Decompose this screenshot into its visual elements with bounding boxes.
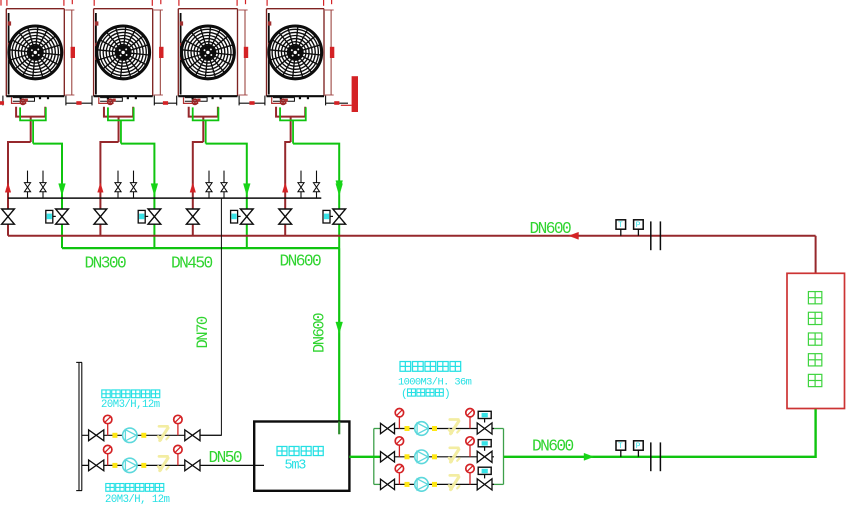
circ pump row 1 flex joint 1 — [405, 426, 410, 431]
equipment-to-be-cooled box — [787, 273, 845, 408]
small drain valve at x=209.0 — [206, 171, 212, 199]
red tick to label bar — [341, 104, 352, 106]
svg-text:20M3/H,12m: 20M3/H,12m — [101, 399, 160, 411]
internal make-up pump row discharge valve — [185, 460, 200, 471]
tower CT1 base — [12, 96, 50, 104]
dimension line tower CT1 — [65, 10, 75, 95]
circ pump row 2 flex joint 1 — [405, 454, 410, 459]
cooling tower CT1 — [6, 9, 64, 97]
internal make-up pump row check valve — [158, 456, 168, 470]
green supply pipe manifold tower CT3 — [193, 107, 247, 248]
label internal make-up pump (CJK) — [106, 484, 164, 492]
fan of tower CT3 — [181, 25, 235, 79]
red main flow arrow left — [569, 232, 579, 239]
supply wall (double line) — [76, 362, 82, 490]
external make-up pump row suction gauge — [104, 415, 112, 435]
svg-text:): ) — [444, 389, 451, 401]
circ pump row 2 discharge gauge — [466, 437, 474, 457]
expansion tank box — [254, 422, 349, 491]
external make-up pump row flex joint 2 — [141, 433, 146, 438]
circ pump row 2 suction gauge — [395, 437, 403, 457]
green flow arrow down riser CT2 — [151, 184, 158, 196]
pressure sensor on red main — [634, 220, 644, 236]
dimension line tower CT3 — [239, 10, 249, 95]
small drain valve at x=133.5 — [130, 171, 136, 199]
circ pump row 3 flex joint 1 — [405, 482, 410, 487]
green arrow down on DN600 vertical — [336, 181, 343, 192]
circ pump row 1 check valve — [449, 420, 459, 434]
green flow arrow down riser CT4 — [336, 184, 343, 196]
small drain valve at x=27.5 — [24, 171, 30, 199]
ground datum marks between towers — [0, 96, 348, 106]
external make-up pump row check valve — [158, 426, 168, 440]
internal make-up pump row suction valve — [89, 460, 104, 471]
valve actuator box CT3 — [231, 210, 241, 223]
circ pump row 2 check valve — [449, 448, 459, 462]
svg-text:T: T — [618, 221, 623, 230]
butterfly valve on red riser CT2 — [94, 209, 107, 224]
label circ pump group (CJK) — [400, 362, 461, 372]
top edge ticks tower CT2 — [94, 0, 161, 6]
circ pump row 2 actuator — [478, 440, 491, 451]
external make-up pump row discharge valve — [185, 430, 200, 441]
tower CT4 base — [272, 96, 309, 104]
internal make-up pump row suction gauge — [104, 445, 112, 465]
circ pump row 3 suction valve — [381, 479, 395, 489]
tank outlet pipe to pump row2 — [349, 456, 381, 458]
fan of tower CT4 — [268, 25, 322, 79]
fan of tower CT2 — [96, 25, 150, 79]
green supply pipe manifold tower CT4 — [280, 107, 339, 248]
butterfly valve on red riser CT1 — [2, 209, 15, 224]
internal make-up pump row pump — [123, 458, 137, 472]
circ pump row 3 flex joint 2 — [432, 482, 437, 487]
circ pump row 3 discharge valve — [477, 479, 492, 490]
label DN600 vertical — [311, 313, 329, 353]
drain header line — [8, 197, 321, 199]
external make-up pump row discharge gauge — [174, 415, 182, 435]
circ pump row 2 discharge valve — [477, 451, 492, 462]
circ pump group right manifold — [503, 429, 505, 485]
cooling tower CT4 — [267, 9, 325, 97]
small drain valve at x=118.0 — [115, 171, 121, 199]
valve actuator box CT2 — [138, 210, 148, 223]
circ pump row 2 suction valve — [381, 452, 395, 462]
circ pump row 3 suction gauge — [395, 464, 403, 484]
red vertical label bar (cooling tower note) — [352, 76, 358, 112]
red return pipe manifold tower CT3 — [189, 107, 218, 236]
tank label (CJK) — [277, 446, 323, 455]
svg-text:DN600: DN600 — [530, 220, 571, 238]
cooling tower CT3 — [178, 9, 237, 97]
DN70 make-up water pipe — [192, 198, 221, 435]
circ pump row 2 pipe — [380, 456, 494, 458]
butterfly valve on red riser CT3 — [186, 209, 199, 224]
svg-text:5m3: 5m3 — [285, 459, 307, 474]
internal make-up pump row discharge gauge — [174, 445, 182, 465]
manifold stubs rows — [374, 429, 504, 485]
circ pump row 3 pipe — [380, 483, 494, 485]
small drain valve at x=301.0 — [298, 171, 304, 199]
svg-text:(: ( — [401, 389, 408, 401]
top edge ticks tower CT1 — [7, 0, 72, 6]
circ pump row 1 pipe — [380, 428, 494, 430]
svg-text:DN300: DN300 — [85, 255, 126, 273]
butterfly valve on green riser CT2 — [148, 209, 161, 224]
cooling tower CT2 — [94, 9, 153, 97]
pipe union on red main — [651, 221, 661, 250]
valve actuator box CT4 — [323, 210, 333, 223]
DN600 pipe stub into tank — [338, 422, 340, 435]
circ pump row 3 actuator — [478, 467, 491, 478]
red condenser return main DN600 — [8, 235, 816, 237]
label external make-up pump (CJK) — [102, 390, 160, 398]
svg-text:T: T — [618, 442, 623, 451]
svg-text:1000M3/H. 36m: 1000M3/H. 36m — [398, 377, 472, 389]
external make-up pump row pump — [123, 428, 137, 442]
svg-text:DN600: DN600 — [280, 253, 321, 271]
small drain valve at x=43.0 — [40, 171, 46, 199]
red return pipe manifold tower CT1 — [8, 107, 45, 236]
label (2 duty 1 standby) (CJK) — [401, 389, 451, 401]
red flow arrow up riser CT2 — [98, 183, 104, 192]
green supply main to equipment — [504, 409, 816, 457]
circ pump row 2 pump — [415, 450, 429, 464]
green flow arrow down riser CT3 — [243, 184, 250, 196]
internal make-up pump row pipe — [82, 464, 264, 466]
equipment box vertical label (CJK) — [808, 292, 821, 387]
temperature sensor on red main — [616, 220, 626, 236]
svg-text:P: P — [636, 442, 641, 451]
svg-text:DN600: DN600 — [532, 438, 573, 456]
DN600 vertical pipe to expansion tank — [338, 248, 340, 434]
circ pump row 1 flex joint 2 — [432, 426, 437, 431]
butterfly valve on red riser CT4 — [279, 209, 292, 224]
circ pump row 1 actuator — [478, 411, 491, 422]
red flow arrow up riser CT1 — [5, 183, 11, 192]
svg-text:P: P — [636, 221, 641, 230]
circ pump group left manifold — [373, 429, 375, 485]
dimension line tower CT2 — [154, 10, 164, 95]
circ pump row 1 suction valve — [381, 423, 395, 433]
svg-text:DN50: DN50 — [209, 449, 242, 467]
small drain valve at x=224.0 — [221, 171, 227, 199]
svg-text:20M3/H, 12m: 20M3/H, 12m — [105, 494, 170, 506]
green supply pipe manifold tower CT1 — [20, 107, 62, 248]
butterfly valve on green riser CT4 — [333, 209, 346, 224]
small drain valve at x=316.5 — [313, 171, 319, 199]
circ pump row 1 discharge valve — [477, 423, 492, 434]
circ pump row 1 suction gauge — [395, 409, 403, 429]
external make-up pump row suction valve — [89, 430, 104, 441]
circ pump row 1 discharge gauge — [466, 409, 474, 429]
svg-text:DN450: DN450 — [171, 255, 212, 273]
circ pump row 2 flex joint 2 — [432, 454, 437, 459]
valve actuator box CT1 — [46, 210, 56, 223]
pressure sensor on green main — [634, 441, 644, 457]
dimension line tower CT4 — [325, 10, 334, 95]
tower CT3 base — [184, 96, 222, 104]
svg-text:DN70: DN70 — [194, 316, 212, 348]
circ pump row 3 discharge gauge — [466, 464, 474, 484]
temperature sensor on green main — [616, 441, 626, 457]
red main drop to equipment box — [815, 236, 817, 273]
top-left datum tick — [0, 0, 2, 6]
fan of tower CT1 — [8, 25, 62, 79]
external make-up pump row flex joint 1 — [112, 433, 117, 438]
green arrow down on DN600 vertical (lower) — [336, 322, 343, 333]
external make-up pump row pipe — [82, 434, 222, 436]
circ pump row 3 pump — [415, 478, 429, 492]
red return pipe manifold tower CT2 — [100, 107, 133, 236]
butterfly valve on green riser CT1 — [56, 209, 69, 224]
top edge ticks tower CT3 — [179, 0, 246, 6]
green flow arrow down riser CT1 — [59, 184, 66, 196]
red return pipe manifold tower CT4 — [276, 107, 305, 236]
svg-text:DN600: DN600 — [311, 313, 329, 353]
tower CT2 base — [99, 96, 137, 104]
butterfly valve on green riser CT3 — [240, 209, 253, 224]
internal make-up pump row flex joint 1 — [112, 463, 117, 468]
pipe union on green main — [651, 442, 661, 471]
internal make-up pump row flex joint 2 — [141, 463, 146, 468]
green condenser supply main — [62, 247, 339, 249]
circ pump row 3 check valve — [449, 475, 459, 489]
green arrow right — [584, 453, 594, 460]
circ pump row 1 pump — [415, 422, 429, 436]
label DN70 vertical — [194, 316, 212, 348]
red flow arrow up riser CT3 — [190, 183, 196, 192]
red flow arrow up riser CT4 — [282, 183, 288, 192]
top edge ticks tower CT4 — [267, 0, 332, 6]
green supply pipe manifold tower CT2 — [108, 107, 154, 248]
